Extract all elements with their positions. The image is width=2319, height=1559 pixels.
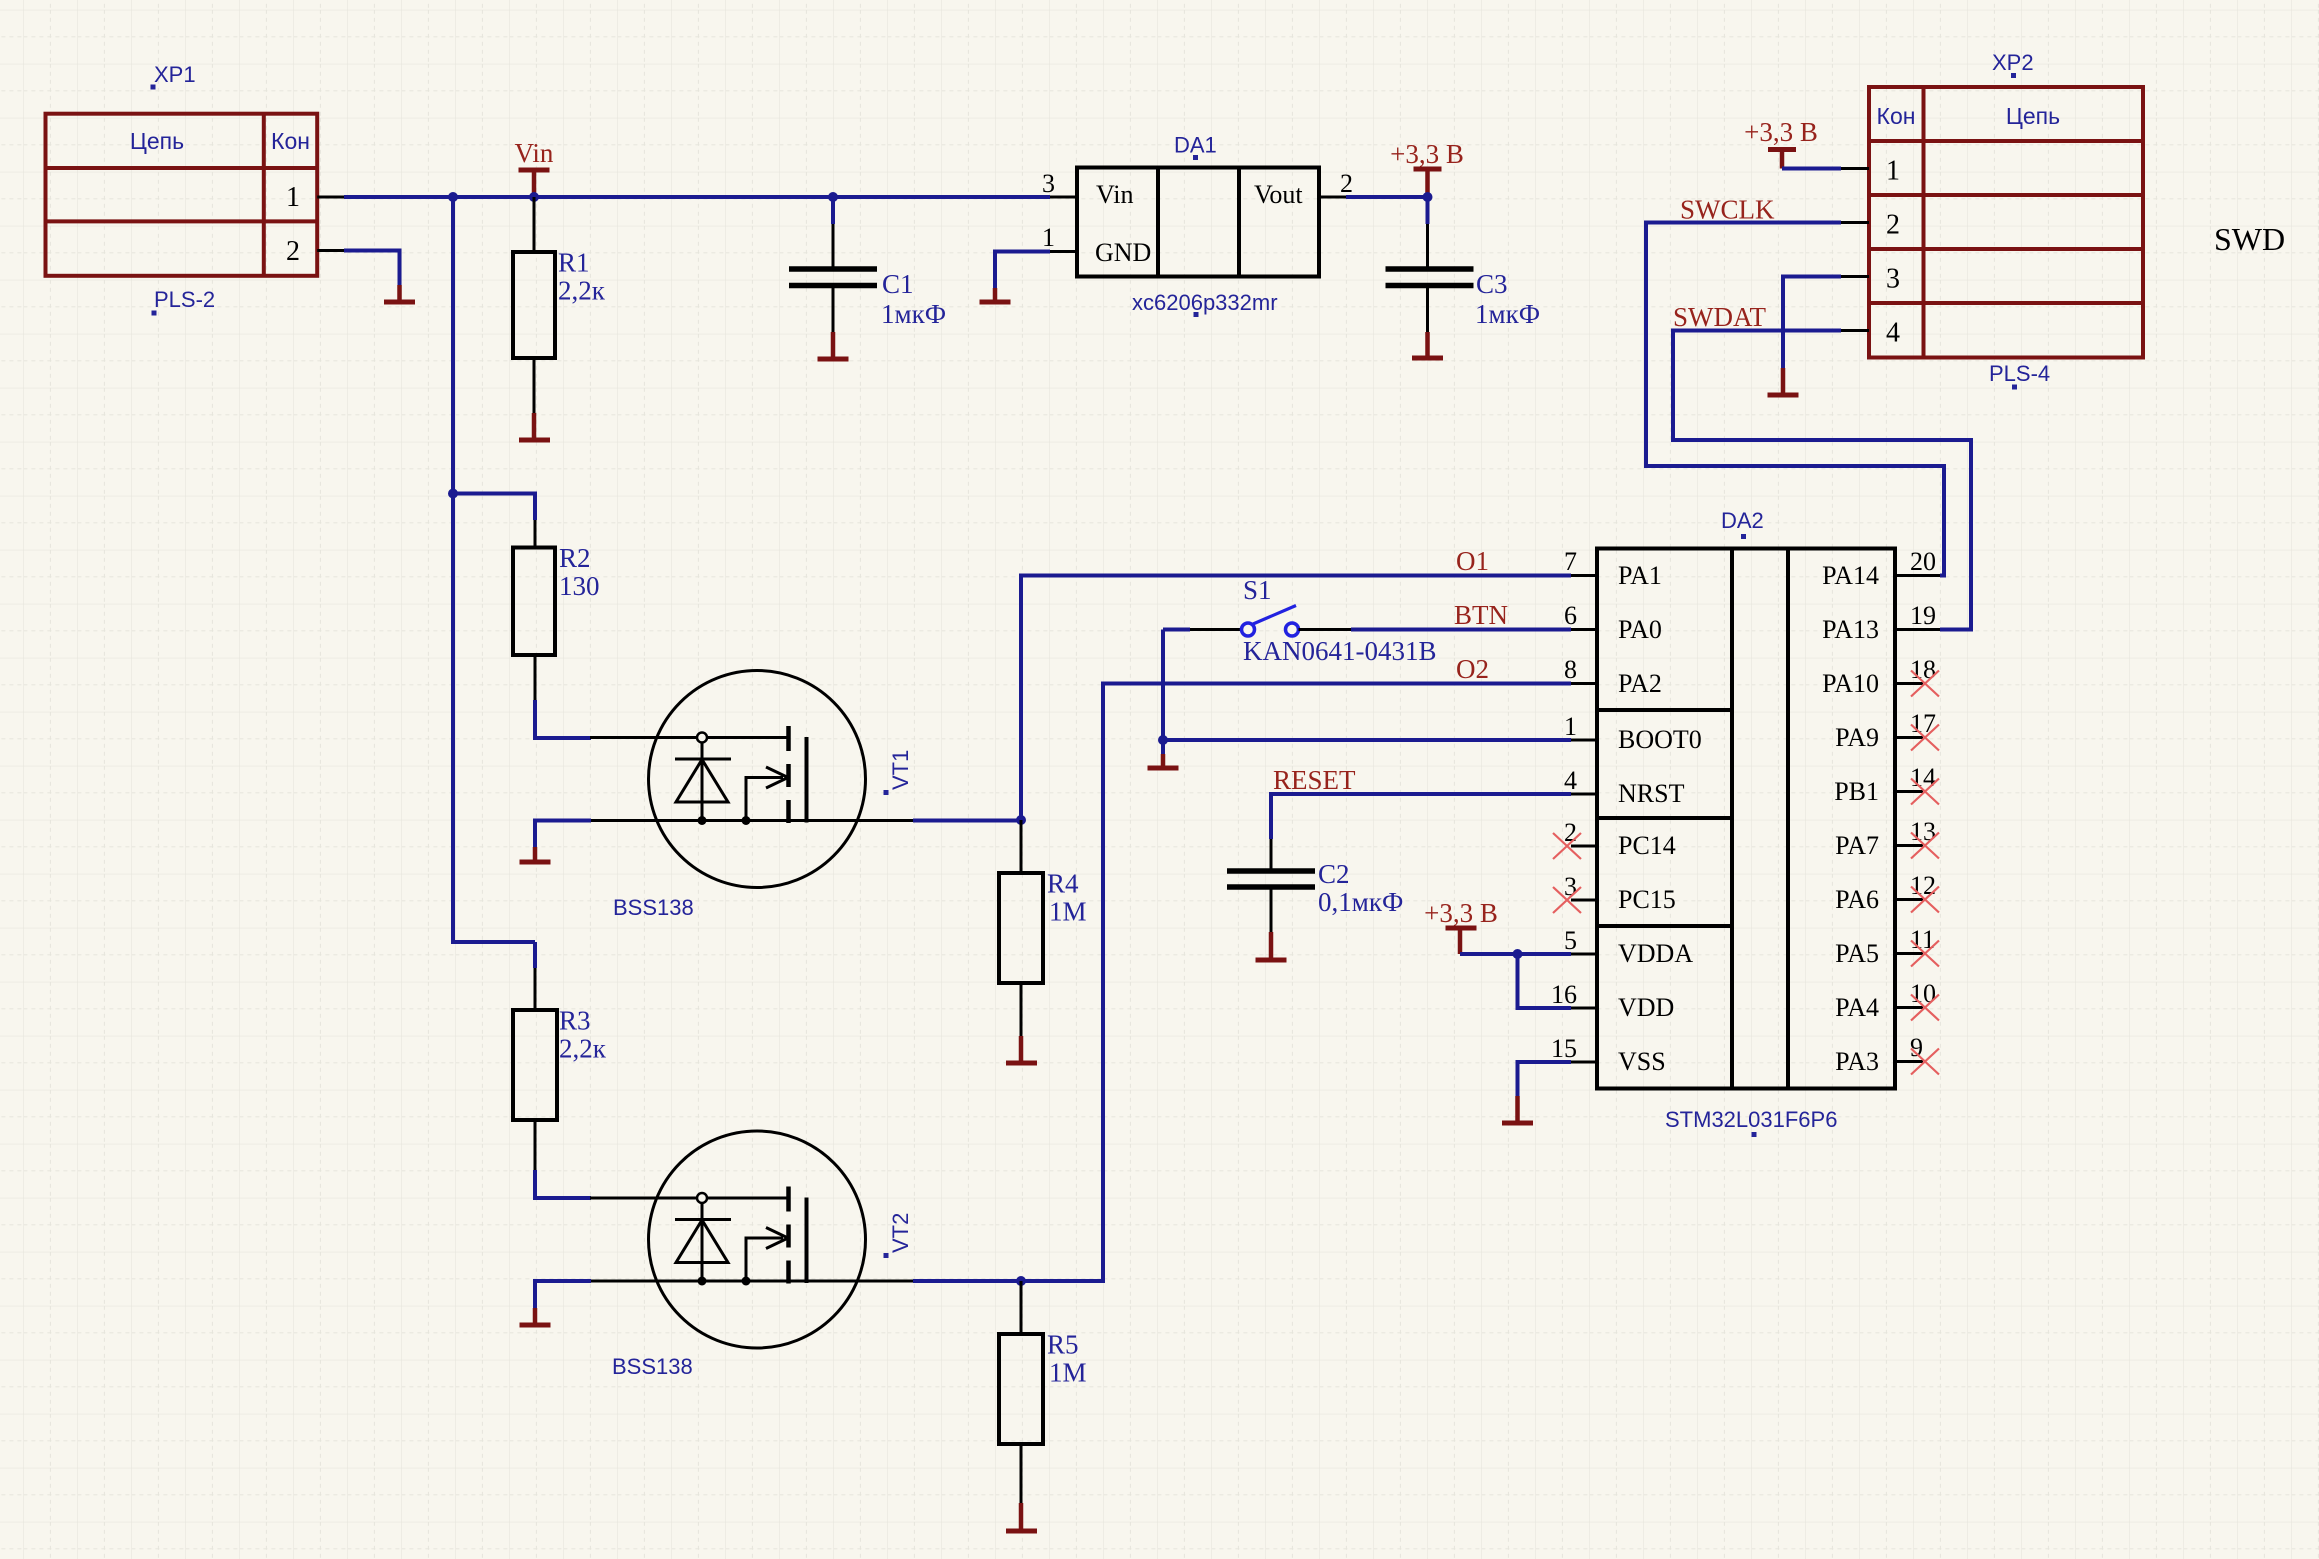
svg-text:Цепь: Цепь: [2006, 103, 2060, 129]
svg-text:VDD: VDD: [1618, 993, 1674, 1022]
DA2 pin 5 VDDA: [1564, 926, 1693, 968]
svg-text:xc6206p332mr: xc6206p332mr: [1132, 290, 1278, 315]
svg-text:1: 1: [1564, 712, 1577, 741]
svg-text:BSS138: BSS138: [612, 1354, 693, 1379]
XP2 pin 3: [1841, 264, 1900, 295]
wire O2 vertical: [1021, 684, 1571, 1282]
transistor VT1: [590, 671, 914, 888]
svg-text:GND: GND: [1095, 238, 1151, 267]
svg-text:XP2: XP2: [1992, 50, 2034, 75]
svg-text:2: 2: [1886, 210, 1900, 241]
svg-text:1M: 1M: [1049, 1358, 1087, 1388]
svg-text:C3: C3: [1476, 269, 1508, 299]
wire VT2 drain to O2 node: [913, 1279, 1021, 1283]
XP2 pin 1: [1841, 156, 1900, 187]
svg-text:PA6: PA6: [1835, 885, 1879, 914]
value xc6206p332mr: [1132, 290, 1278, 317]
DA2 pin 4 NRST: [1564, 766, 1685, 808]
svg-text:+3,3 В: +3,3 В: [1390, 139, 1464, 169]
svg-text:C1: C1: [882, 269, 914, 299]
DA1 pin 3: [1042, 169, 1077, 198]
wire SWDAT: [1673, 331, 1971, 630]
wire Vin net horizontal: [344, 195, 1050, 199]
svg-text:1: 1: [1042, 223, 1055, 252]
svg-text:1: 1: [286, 182, 300, 213]
resistor R4: [999, 820, 1043, 1036]
svg-text:PA1: PA1: [1618, 561, 1662, 590]
DA2 pin 1 BOOT0: [1564, 712, 1702, 754]
ground R5: [1006, 1503, 1037, 1531]
svg-text:DA1: DA1: [1174, 133, 1217, 158]
DA2 pin 7 PA1: [1564, 547, 1662, 590]
svg-text:KAN0641-0431B: KAN0641-0431B: [1243, 636, 1437, 666]
svg-text:+3,3 В: +3,3 В: [1744, 117, 1818, 147]
svg-text:Vin: Vin: [515, 138, 554, 168]
junction R2 tap: [448, 489, 458, 499]
ground BOOT0: [1148, 740, 1179, 768]
svg-text:PLS-2: PLS-2: [154, 287, 215, 312]
DA2 pin 20 PA14: [1822, 547, 1940, 590]
svg-text:14: 14: [1910, 763, 1936, 792]
svg-text:2: 2: [286, 236, 300, 267]
ground R1: [519, 413, 550, 440]
DA2 pin 18 PA10 no-connect: [1822, 655, 1939, 698]
svg-text:R4: R4: [1047, 869, 1079, 899]
svg-text:PA2: PA2: [1618, 669, 1662, 698]
svg-text:4: 4: [1886, 318, 1900, 349]
power flag +3,3 В (C3): [1390, 139, 1464, 197]
wire VDD branch: [1518, 954, 1572, 1008]
DA2 pin 13 PA7 no-connect: [1835, 817, 1939, 860]
svg-text:XP1: XP1: [154, 62, 196, 87]
connector XP2 table: [1869, 87, 2143, 358]
junction R1 tap: [529, 192, 539, 202]
wire VT1 source to ground: [535, 821, 591, 848]
svg-text:PA13: PA13: [1822, 615, 1879, 644]
ground XP2 pin3: [1768, 368, 1799, 395]
svg-text:O2: O2: [1456, 654, 1489, 684]
svg-text:130: 130: [559, 571, 600, 601]
svg-text:C2: C2: [1318, 859, 1350, 889]
DA2 pin 19 PA13: [1822, 601, 1940, 644]
junction O2 node: [1016, 1276, 1026, 1286]
svg-text:8: 8: [1564, 655, 1577, 684]
svg-text:NRST: NRST: [1618, 779, 1685, 808]
label XP2: [1992, 50, 2034, 78]
label DA2: [1721, 508, 1764, 539]
wire O1 vertical: [1021, 576, 1571, 821]
DA2 pin 15 VSS: [1551, 1034, 1666, 1076]
svg-text:12: 12: [1910, 871, 1936, 900]
DA2 pin 14 PB1 no-connect: [1834, 763, 1939, 806]
svg-text:PC15: PC15: [1618, 885, 1676, 914]
junction O1 node: [1016, 815, 1026, 825]
svg-text:SWCLK: SWCLK: [1680, 195, 1775, 225]
wire XP2 pin3 to ground: [1783, 277, 1841, 369]
switch S1: [1163, 606, 1571, 637]
label XP1: [151, 62, 196, 90]
svg-text:PA0: PA0: [1618, 615, 1662, 644]
junction BOOT0 node: [1158, 735, 1168, 745]
transistor VT2: [590, 1131, 914, 1348]
XP2 pin 4: [1841, 318, 1900, 349]
wire Vin bus vertical: [453, 197, 535, 942]
MCU DA2: [1597, 549, 1895, 1089]
svg-text:VDDA: VDDA: [1618, 939, 1693, 968]
wire VT2 source to ground: [535, 1281, 591, 1308]
XP1 pin 1: [286, 182, 344, 213]
XP1 pin 2: [286, 236, 344, 267]
svg-text:13: 13: [1910, 817, 1936, 846]
svg-text:2: 2: [1340, 169, 1353, 198]
svg-text:0,1мкФ: 0,1мкФ: [1318, 887, 1403, 917]
label PLS-4: [1989, 361, 2050, 390]
svg-text:PA9: PA9: [1835, 723, 1879, 752]
svg-text:5: 5: [1564, 926, 1577, 955]
capacitor C3: [1386, 197, 1474, 332]
svg-text:R2: R2: [559, 543, 591, 573]
svg-text:6: 6: [1564, 601, 1577, 630]
svg-text:Цепь: Цепь: [130, 128, 184, 154]
wire VT1 drain to O1 node: [913, 819, 1021, 823]
svg-text:4: 4: [1564, 766, 1577, 795]
svg-text:18: 18: [1910, 655, 1936, 684]
svg-text:PA4: PA4: [1835, 993, 1879, 1022]
wire XP1 pin2 to ground: [344, 251, 400, 286]
ground VT2: [520, 1308, 551, 1325]
svg-text:STM32L031F6P6: STM32L031F6P6: [1665, 1107, 1837, 1132]
svg-text:3: 3: [1886, 264, 1900, 295]
svg-text:11: 11: [1910, 925, 1935, 954]
svg-text:PA10: PA10: [1822, 669, 1879, 698]
svg-text:VT2: VT2: [888, 1213, 913, 1253]
DA2 pin 11 PA5 no-connect: [1835, 925, 1939, 968]
svg-text:1мкФ: 1мкФ: [881, 299, 946, 329]
junction +3,3V node: [1423, 192, 1433, 202]
resistor R3: [513, 942, 591, 1198]
svg-text:Vout: Vout: [1254, 180, 1303, 209]
DA2 pin 9 PA3 no-connect: [1835, 1033, 1939, 1076]
svg-text:RESET: RESET: [1273, 765, 1356, 795]
regulator DA1: [1077, 168, 1319, 277]
junction C1 tap: [828, 192, 838, 202]
svg-text:SWDAT: SWDAT: [1673, 302, 1767, 332]
svg-text:BOOT0: BOOT0: [1618, 725, 1702, 754]
svg-text:R1: R1: [558, 248, 590, 278]
DA2 pin 12 PA6 no-connect: [1835, 871, 1939, 914]
svg-text:PA3: PA3: [1835, 1047, 1879, 1076]
wire +3,3V to XP2 pin1: [1782, 167, 1841, 171]
ground XP1 pin2: [384, 285, 415, 302]
svg-text:16: 16: [1551, 980, 1577, 1009]
DA1 pin 2: [1319, 169, 1353, 198]
svg-text:15: 15: [1551, 1034, 1577, 1063]
svg-text:VSS: VSS: [1618, 1047, 1666, 1076]
junction VDDA node: [1513, 949, 1523, 959]
svg-text:+3,3 В: +3,3 В: [1424, 898, 1498, 928]
DA2 pin 3 PC15 no-connect: [1553, 872, 1676, 914]
capacitor C2: [1227, 839, 1315, 932]
label DA1: [1174, 133, 1217, 161]
wire DA1 out to +3,3V node: [1346, 195, 1428, 199]
ground C3: [1412, 332, 1443, 358]
svg-text:BSS138: BSS138: [613, 895, 694, 920]
ground DA1: [980, 288, 1011, 302]
resistor R1: [513, 197, 555, 413]
junction Vin bus: [448, 192, 458, 202]
capacitor C1: [789, 197, 877, 332]
svg-text:VT1: VT1: [888, 750, 913, 790]
svg-text:PA7: PA7: [1835, 831, 1879, 860]
power flag +3,3 В (VDDA): [1424, 898, 1498, 954]
label PLS-2: [152, 287, 216, 316]
svg-text:3: 3: [1042, 169, 1055, 198]
svg-text:20: 20: [1910, 547, 1936, 576]
svg-text:PB1: PB1: [1834, 777, 1879, 806]
ground VSS: [1502, 1096, 1533, 1123]
connector XP1 table: [46, 114, 318, 276]
svg-text:2,2к: 2,2к: [559, 1034, 607, 1064]
XP2 pin 2: [1841, 210, 1900, 241]
svg-text:R5: R5: [1047, 1330, 1079, 1360]
svg-text:O1: O1: [1456, 546, 1489, 576]
DA2 pin 6 PA0: [1564, 601, 1662, 644]
svg-text:10: 10: [1910, 979, 1936, 1008]
power flag +3,3 В (XP2): [1744, 117, 1818, 169]
ground R4: [1006, 1036, 1037, 1063]
svg-text:Кон: Кон: [271, 128, 310, 154]
ground C2: [1256, 932, 1287, 960]
DA2 pin 8 PA2: [1564, 655, 1662, 698]
svg-text:2,2к: 2,2к: [558, 276, 606, 306]
wire VDDA: [1460, 952, 1571, 956]
DA2 pin 2 PC14 no-connect: [1553, 818, 1676, 860]
svg-text:BTN: BTN: [1454, 600, 1508, 630]
wire VSS to ground: [1518, 1062, 1572, 1096]
resistor R2: [452, 494, 591, 739]
svg-text:1: 1: [1886, 156, 1900, 187]
svg-text:PA5: PA5: [1835, 939, 1879, 968]
wire DA1 GND: [995, 252, 1050, 289]
DA2 pin 10 PA4 no-connect: [1835, 979, 1939, 1022]
svg-text:PC14: PC14: [1618, 831, 1676, 860]
label VT2: [884, 1213, 914, 1258]
DA2 pin 16 VDD: [1551, 980, 1674, 1022]
svg-text:19: 19: [1910, 601, 1936, 630]
svg-text:7: 7: [1564, 547, 1577, 576]
power flag Vin: [515, 138, 554, 197]
ground C1: [818, 332, 849, 359]
svg-text:Кон: Кон: [1877, 103, 1916, 129]
wire BOOT0: [1163, 738, 1571, 742]
wire BTN to BOOT0: [1161, 630, 1165, 741]
resistor R5: [999, 1281, 1043, 1503]
svg-text:SWD: SWD: [2214, 221, 2285, 257]
svg-text:DA2: DA2: [1721, 508, 1764, 533]
svg-text:1M: 1M: [1049, 897, 1087, 927]
wire SWCLK: [1646, 223, 1944, 576]
svg-text:PLS-4: PLS-4: [1989, 361, 2050, 386]
wire RESET: [1271, 794, 1571, 839]
DA1 pin 1: [1042, 223, 1077, 252]
DA2 pin 17 PA9 no-connect: [1835, 709, 1939, 752]
svg-text:S1: S1: [1243, 575, 1272, 605]
ground VT1: [520, 847, 551, 862]
svg-text:1мкФ: 1мкФ: [1475, 299, 1540, 329]
svg-text:17: 17: [1910, 709, 1936, 738]
label VT1: [884, 750, 914, 795]
value STM32L031F6P6: [1665, 1107, 1837, 1137]
svg-text:PA14: PA14: [1822, 561, 1879, 590]
svg-text:Vin: Vin: [1096, 180, 1133, 209]
svg-text:R3: R3: [559, 1006, 591, 1036]
